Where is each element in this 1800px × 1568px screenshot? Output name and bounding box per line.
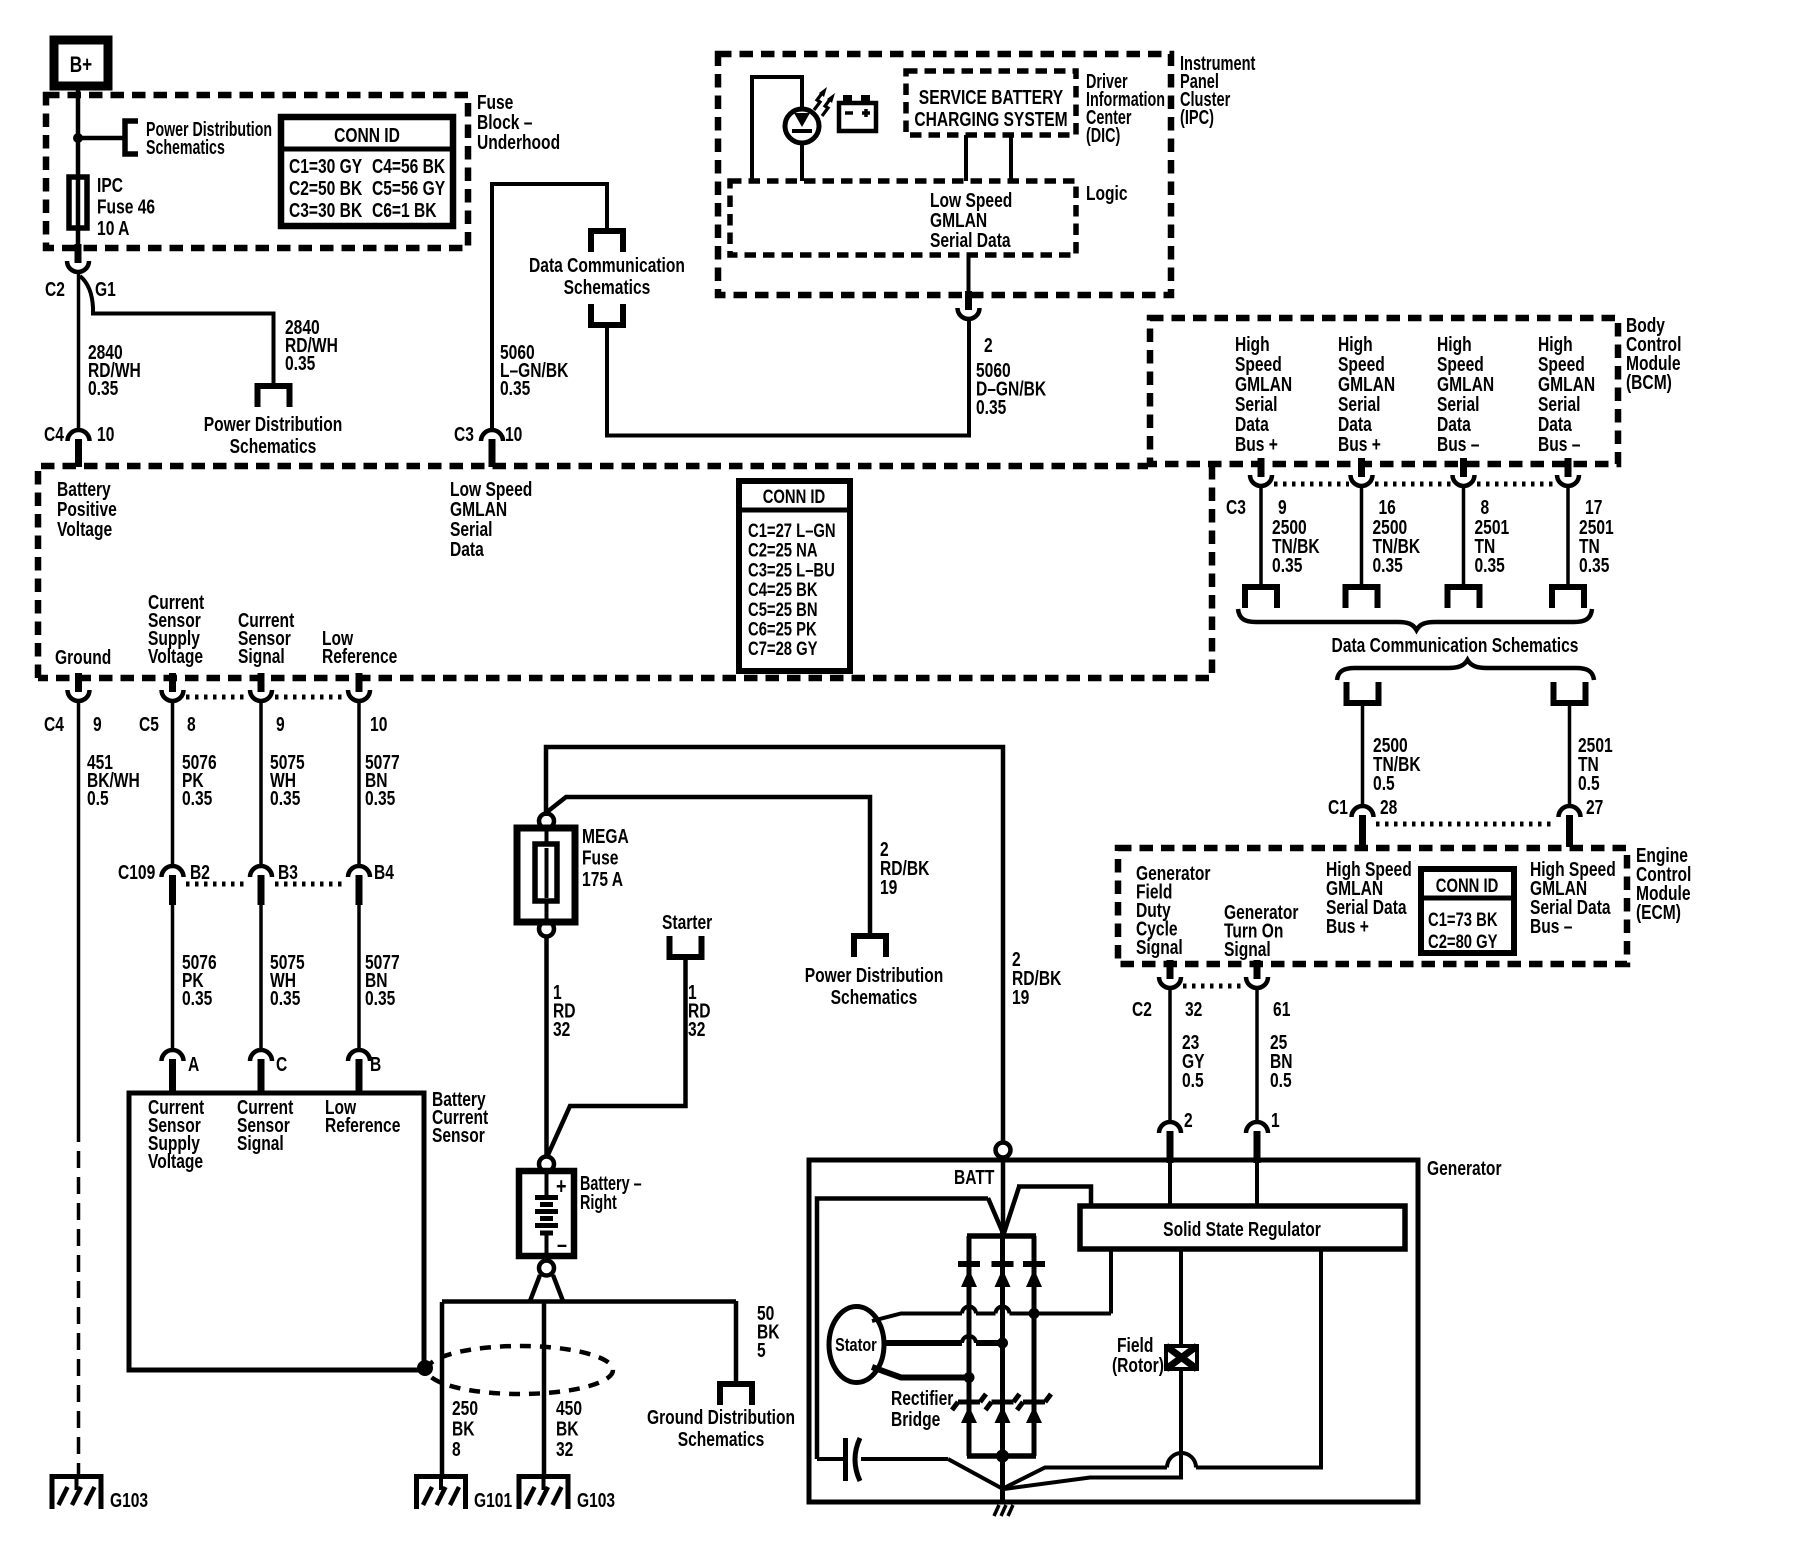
- svg-text:9: 9: [93, 713, 102, 735]
- wire 2500 TN/BK 0.5: [1361, 703, 1365, 808]
- svg-text:Data: Data: [1538, 413, 1573, 435]
- svg-text:C6=1 BK: C6=1 BK: [372, 199, 437, 221]
- svg-text:C109: C109: [118, 861, 155, 883]
- svg-text:Sensor: Sensor: [432, 1124, 485, 1146]
- svg-text:C4=25 BK: C4=25 BK: [748, 579, 818, 600]
- dotted connector link C1 row: [1376, 822, 1556, 827]
- wire 50 BK 5: [734, 1301, 739, 1384]
- wire field to ground: [1004, 1369, 1181, 1489]
- rectifier bridge frame: [967, 1233, 1036, 1239]
- label 2501 TN 0.35: [1475, 516, 1510, 576]
- connector sensor pin A: [162, 1050, 184, 1061]
- label High Speed GMLAN Serial Data Bus + col1: [1235, 333, 1292, 455]
- labels C1 28 27: [1328, 796, 1603, 818]
- svg-text:250: 250: [452, 1397, 478, 1419]
- svg-text:Low Speed: Low Speed: [930, 189, 1012, 211]
- svg-text:BK: BK: [452, 1418, 475, 1440]
- svg-text:High: High: [1338, 333, 1373, 355]
- svg-text:Speed: Speed: [1538, 353, 1585, 375]
- connector generator pin 1: [1246, 1122, 1268, 1133]
- svg-text:Serial Data: Serial Data: [930, 229, 1011, 251]
- svg-text:C7=28 GY: C7=28 GY: [748, 638, 818, 659]
- svg-text:Schematics: Schematics: [678, 1428, 765, 1450]
- svg-text:19: 19: [1012, 986, 1029, 1008]
- label 2 RD/BK 19 branch: [880, 838, 929, 898]
- wire BATT vee left: [988, 1198, 1003, 1233]
- wire regulator right to ground: [1196, 1249, 1321, 1468]
- svg-text:C1=73 BK: C1=73 BK: [1428, 909, 1498, 930]
- svg-text:17: 17: [1585, 496, 1602, 518]
- wire 2500-TN/BK from BCM: [1360, 487, 1364, 587]
- label 2840 RD/WH 0.35 branch: [285, 316, 338, 374]
- label 2500 TN/BK 0.35: [1272, 516, 1320, 576]
- junction dot bridge bottom: [996, 1450, 1009, 1463]
- label Data Communication Schematics top: [529, 254, 685, 298]
- svg-text:Signal: Signal: [1224, 938, 1271, 960]
- bridge rail middle: [1000, 1232, 1005, 1504]
- label Power Distribution Schematics lower: [805, 964, 944, 1008]
- connector C4 pin 9 ground wire: [75, 673, 82, 692]
- svg-text:Fuse 46: Fuse 46: [97, 196, 155, 218]
- table CONN ID fuse block underhood: [281, 117, 453, 226]
- label 1 RD 32 starter: [688, 981, 711, 1040]
- svg-text:Speed: Speed: [1235, 353, 1282, 375]
- wire data comm top run: [492, 184, 607, 231]
- svg-text:Bus +: Bus +: [1338, 433, 1381, 455]
- off-page bracket Power Distribution Schematics lower: [854, 936, 886, 957]
- ground symbol G101: [439, 1474, 443, 1490]
- svg-text:CHARGING SYSTEM: CHARGING SYSTEM: [914, 108, 1067, 130]
- label Battery Current Sensor: [432, 1088, 488, 1146]
- connector pin 61 generator turn on: [1254, 960, 1261, 979]
- svg-text:Data: Data: [450, 538, 485, 560]
- off-page bracket to ECM bus plus: [1347, 682, 1379, 703]
- wire BATT vee right to regulator: [1004, 1187, 1019, 1233]
- wires DIC to logic: [964, 135, 968, 181]
- wire left internal rail: [817, 1199, 988, 1460]
- label Current Sensor Signal: [238, 609, 294, 667]
- label Low Speed GMLAN Serial Data harness: [450, 478, 532, 560]
- junction circle battery top: [539, 1157, 554, 1172]
- svg-text:C1=30 GY: C1=30 GY: [289, 155, 362, 177]
- label Rectifier Bridge: [891, 1387, 953, 1430]
- avalanche diode bottom middle: [992, 1400, 1014, 1405]
- svg-text:Schematics: Schematics: [146, 136, 225, 159]
- diode top left: [958, 1261, 980, 1267]
- component box Generator: [809, 1160, 1418, 1502]
- svg-text:8: 8: [187, 713, 196, 735]
- table CONN ID ECM: [1421, 869, 1514, 953]
- svg-text:0.35: 0.35: [270, 987, 300, 1009]
- wire branch to power distribution: [547, 797, 870, 936]
- svg-text:Voltage: Voltage: [148, 1150, 203, 1172]
- label MEGA Fuse 175 A: [582, 825, 629, 890]
- label Current Sensor Supply Voltage: [148, 591, 204, 667]
- svg-text:Underhood: Underhood: [477, 131, 560, 153]
- svg-text:32: 32: [1185, 998, 1202, 1020]
- svg-text:C2=25 NA: C2=25 NA: [748, 540, 818, 561]
- wire G1 branch to power distribution: [80, 276, 274, 386]
- svg-text:Bus –: Bus –: [1538, 433, 1580, 455]
- svg-text:C4: C4: [44, 713, 64, 735]
- label 2501 TN 0.35: [1579, 516, 1614, 576]
- label Current Sensor Signal inside: [237, 1096, 293, 1154]
- wire from data comm to IPC pin 2: [607, 320, 969, 436]
- label 23 GY 0.5: [1182, 1031, 1205, 1091]
- svg-text:Logic: Logic: [1086, 182, 1128, 204]
- svg-text:10: 10: [505, 423, 522, 445]
- svg-text:GMLAN: GMLAN: [1538, 373, 1595, 395]
- svg-text:0.5: 0.5: [1270, 1069, 1292, 1091]
- svg-text:61: 61: [1273, 998, 1290, 1020]
- off-page bracket BCM wire 1: [1245, 587, 1277, 608]
- svg-text:Voltage: Voltage: [57, 518, 112, 540]
- svg-text:B2: B2: [190, 861, 210, 883]
- label 5076 PK 0.35 lower: [182, 951, 217, 1009]
- svg-text:28: 28: [1380, 796, 1397, 818]
- svg-text:G1: G1: [95, 278, 116, 300]
- svg-text:8: 8: [452, 1438, 461, 1460]
- fuse MEGA Fuse 175A: [517, 828, 575, 922]
- junction circle battery bottom: [539, 1261, 554, 1276]
- svg-text:0.35: 0.35: [285, 352, 315, 374]
- label High Speed GMLAN Serial Data Bus + col2: [1338, 333, 1395, 455]
- dotted connector link ECM row: [1183, 984, 1244, 989]
- svg-text:10: 10: [97, 423, 114, 445]
- svg-text:B4: B4: [374, 861, 394, 883]
- connector generator pin 2: [1159, 1122, 1181, 1133]
- svg-text:Low Speed: Low Speed: [450, 478, 532, 500]
- svg-text:B: B: [370, 1053, 381, 1075]
- diode top right: [1023, 1261, 1045, 1267]
- connector C5 pin 8: [169, 673, 176, 692]
- svg-text:(Rotor): (Rotor): [1112, 1354, 1164, 1376]
- svg-text:Reference: Reference: [322, 645, 397, 667]
- svg-text:0.35: 0.35: [182, 987, 212, 1009]
- svg-text:32: 32: [553, 1018, 570, 1040]
- svg-text:Data: Data: [1437, 413, 1472, 435]
- svg-text:G103: G103: [577, 1489, 615, 1511]
- svg-text:Data Communication Schematics: Data Communication Schematics: [1332, 634, 1579, 656]
- svg-text:Speed: Speed: [1338, 353, 1385, 375]
- svg-text:0.35: 0.35: [182, 787, 212, 809]
- svg-text:Power Distribution: Power Distribution: [204, 413, 343, 435]
- svg-text:G101: G101: [474, 1489, 512, 1511]
- wire 1 RD 32 fuse to battery: [544, 936, 549, 1156]
- off-page bracket BCM wire 2: [1346, 587, 1378, 608]
- label Low Reference: [322, 627, 397, 667]
- svg-text:Data: Data: [1338, 413, 1373, 435]
- wire battery positive feed top: [546, 747, 1003, 1144]
- wire 2501-TN from BCM: [1566, 487, 1570, 587]
- wire stator phase B: [884, 1340, 962, 1346]
- capacitor noise suppressor: [817, 1438, 948, 1481]
- svg-text:C: C: [276, 1053, 287, 1075]
- indicator lamp wiring loop: [752, 77, 802, 181]
- svg-text:C4=56 BK: C4=56 BK: [372, 155, 445, 177]
- junction circle MEGA fuse top: [539, 814, 554, 829]
- label Fuse Block - Underhood: [477, 91, 560, 153]
- off-page bracket Power Distribution Schematics branch: [258, 386, 290, 407]
- wire 451 BK/WH upper: [77, 702, 81, 1125]
- wire 451 BK/WH dashed to G103: [77, 1125, 81, 1474]
- label Low Speed GMLAN Serial Data logic: [930, 189, 1012, 251]
- wire stator phase A to regulator: [872, 1314, 962, 1322]
- wire ground bus horizontal: [442, 1299, 736, 1304]
- svg-text:GMLAN: GMLAN: [1338, 373, 1395, 395]
- svg-text:10 A: 10 A: [97, 217, 129, 239]
- brace data communication lower: [1337, 660, 1594, 680]
- svg-text:(IPC): (IPC): [1180, 106, 1214, 129]
- svg-text:Bridge: Bridge: [891, 1408, 940, 1430]
- off-page bracket Starter: [670, 936, 702, 957]
- wire 23 GY 0.5: [1168, 989, 1172, 1124]
- svg-text:GMLAN: GMLAN: [1437, 373, 1494, 395]
- svg-text:Starter: Starter: [662, 911, 712, 933]
- off-page bracket to ECM bus minus: [1554, 682, 1586, 703]
- svg-text:9: 9: [1278, 496, 1287, 518]
- battery telltale icon: [839, 95, 876, 131]
- svg-text:27: 27: [1586, 796, 1603, 818]
- svg-text:GMLAN: GMLAN: [930, 209, 987, 231]
- off-page bracket Ground Distribution Schematics: [720, 1384, 752, 1405]
- junction dot phase B middle rail: [997, 1338, 1008, 1349]
- module box Engine Control Module ECM: [1118, 848, 1627, 964]
- label 1 RD 32 left: [553, 981, 576, 1040]
- connector C109 B4: [348, 866, 370, 877]
- svg-text:G103: G103: [110, 1489, 148, 1511]
- svg-text:Generator: Generator: [1427, 1157, 1502, 1179]
- off-page reference bracket Power Distribution Schematics: [125, 121, 138, 154]
- ground symbol G103 right: [542, 1474, 546, 1490]
- module box Body Control Module BCM: [1150, 318, 1618, 464]
- svg-text:Schematics: Schematics: [831, 986, 918, 1008]
- connector C1 pin 27: [1559, 806, 1581, 817]
- off-page bracket data communication out: [591, 304, 623, 325]
- wire 25 BN 0.5: [1255, 989, 1259, 1124]
- label Generator Field Duty Cycle Signal: [1136, 862, 1211, 958]
- svg-text:CONN ID: CONN ID: [1436, 875, 1498, 896]
- svg-text:Rectifier: Rectifier: [891, 1387, 953, 1409]
- bridge rail right: [1032, 1236, 1037, 1456]
- module box Instrument Panel Cluster IPC: [718, 54, 1171, 295]
- label Engine Control Module ECM: [1636, 844, 1691, 923]
- label IPC Fuse 46 10 A: [97, 174, 155, 239]
- label High Speed GMLAN Serial Data Bus – col3: [1437, 333, 1494, 455]
- svg-text:1: 1: [1271, 1109, 1280, 1131]
- svg-text:High: High: [1437, 333, 1472, 355]
- junction dot phase A right rail: [1029, 1308, 1040, 1319]
- svg-text:0.35: 0.35: [1372, 554, 1402, 576]
- connector pin 9 signal: [258, 673, 265, 692]
- LED light arrows: [814, 87, 835, 116]
- svg-text:2: 2: [1184, 1109, 1193, 1131]
- avalanche diode bottom left: [958, 1400, 980, 1405]
- svg-text:GMLAN: GMLAN: [450, 498, 507, 520]
- svg-text:BK: BK: [556, 1418, 579, 1440]
- svg-text:Schematics: Schematics: [564, 276, 651, 298]
- wire B+ to fuse: [76, 84, 81, 248]
- labels C2 32 61: [1132, 998, 1290, 1020]
- label Driver Information Center DIC: [1086, 70, 1165, 147]
- wire stator phase C: [872, 1367, 969, 1378]
- label 5076 PK 0.35 upper: [182, 751, 217, 809]
- wire 1 RD 32 starter: [547, 957, 686, 1157]
- svg-text:B+: B+: [70, 53, 92, 78]
- twisted pair dashed ellipse: [427, 1346, 613, 1394]
- svg-text:32: 32: [688, 1018, 705, 1040]
- svg-text:Right: Right: [580, 1191, 617, 1214]
- label Current Sensor Supply Voltage inside: [148, 1096, 204, 1172]
- wires ECM pins into regulator: [1168, 1150, 1172, 1208]
- label Low Reference inside: [325, 1096, 400, 1136]
- node B+ battery positive terminal: [54, 40, 108, 86]
- svg-text:0.35: 0.35: [1579, 554, 1609, 576]
- svg-text:C3: C3: [454, 423, 474, 445]
- svg-text:175 A: 175 A: [582, 868, 623, 890]
- wire 2500-TN/BK from BCM: [1259, 487, 1263, 587]
- svg-text:Bus –: Bus –: [1437, 433, 1479, 455]
- svg-text:Serial: Serial: [1437, 393, 1479, 415]
- svg-text:CONN ID: CONN ID: [763, 486, 825, 507]
- connector C3 pin 8: [1460, 458, 1467, 477]
- wire logic to IPC pin 2: [967, 255, 971, 297]
- svg-text:High: High: [1235, 333, 1270, 355]
- svg-text:5: 5: [757, 1339, 766, 1361]
- labels generator pins 2 1: [1184, 1109, 1280, 1131]
- label Battery Positive Voltage: [57, 478, 117, 540]
- svg-text:Speed: Speed: [1437, 353, 1484, 375]
- svg-text:0.5: 0.5: [87, 787, 109, 809]
- svg-text:0.5: 0.5: [1578, 772, 1600, 794]
- label 5075 WH 0.35 upper: [270, 751, 305, 809]
- svg-text:Signal: Signal: [238, 645, 285, 667]
- connector C109 B3: [250, 866, 272, 877]
- label 2500 TN/BK 0.35: [1372, 516, 1420, 576]
- svg-text:C5: C5: [139, 713, 159, 735]
- connector pin 10 low reference: [356, 673, 363, 692]
- wire 5075 WH lower: [259, 905, 263, 1050]
- svg-text:0.35: 0.35: [365, 787, 395, 809]
- svg-text:0.5: 0.5: [1182, 1069, 1204, 1091]
- component box Battery - Right: [519, 1171, 574, 1258]
- svg-text:C6=25 PK: C6=25 PK: [748, 619, 817, 640]
- wire 5075 WH upper: [259, 702, 263, 868]
- label 5077 BN 0.35 lower: [365, 951, 400, 1009]
- fuse IPC Fuse 46 10A: [69, 177, 87, 228]
- svg-text:SERVICE BATTERY: SERVICE BATTERY: [919, 86, 1063, 108]
- component box Battery Current Sensor: [129, 1093, 424, 1370]
- connector C2 pin 32 generator field duty cycle: [1167, 960, 1174, 979]
- svg-text:Power Distribution: Power Distribution: [805, 964, 944, 986]
- wire BATT into bridge: [1001, 1157, 1006, 1232]
- svg-text:MEGA: MEGA: [582, 825, 629, 847]
- dotted connector link C5 row: [186, 695, 249, 700]
- label Power Distribution Schematics: [146, 118, 272, 159]
- svg-text:Data Communication: Data Communication: [529, 254, 685, 276]
- svg-text:Bus +: Bus +: [1326, 915, 1369, 937]
- wire 5060 L-GN/BK vertical: [490, 182, 494, 430]
- svg-text:(ECM): (ECM): [1636, 901, 1681, 923]
- label 450 BK 32: [556, 1397, 582, 1460]
- svg-text:BATT: BATT: [954, 1166, 994, 1188]
- svg-text:C5=25 BN: C5=25 BN: [748, 599, 818, 620]
- wire 2501-TN from BCM: [1462, 487, 1466, 587]
- label 5060 D-GN/BK 0.35: [976, 359, 1046, 418]
- field rotor winding symbol: [1166, 1346, 1197, 1369]
- labels pins A C B: [188, 1053, 381, 1075]
- svg-text:0.35: 0.35: [976, 396, 1006, 418]
- module box Fuse Block - Underhood: [46, 95, 468, 248]
- wire 5076 PK lower: [171, 905, 175, 1050]
- svg-text:IPC: IPC: [97, 174, 123, 196]
- label 5075 WH 0.35 lower: [270, 951, 305, 1009]
- connector C1 pin 28: [1352, 806, 1374, 817]
- junction dot phase C left rail: [964, 1372, 975, 1383]
- svg-text:19: 19: [880, 876, 897, 898]
- svg-text:Fuse: Fuse: [477, 91, 513, 113]
- svg-text:0.35: 0.35: [500, 377, 530, 399]
- avalanche diode bottom right: [1023, 1400, 1045, 1405]
- label 451 BK/WH 0.5: [87, 751, 140, 809]
- junction circle BATT terminal: [996, 1143, 1011, 1158]
- svg-text:0.35: 0.35: [88, 377, 118, 399]
- box Logic: [730, 181, 1076, 255]
- box SERVICE BATTERY CHARGING SYSTEM message: [906, 71, 1076, 135]
- svg-text:10: 10: [370, 713, 387, 735]
- wire capacitor to ground point: [948, 1459, 1003, 1489]
- label Body Control Module BCM: [1626, 314, 1681, 393]
- junction dot on B+ feed: [73, 133, 83, 143]
- svg-text:C1: C1: [1328, 796, 1348, 818]
- svg-text:Reference: Reference: [325, 1114, 400, 1136]
- svg-text:32: 32: [556, 1438, 573, 1460]
- label High Speed GMLAN Serial Data Bus minus ECM: [1530, 858, 1616, 937]
- label 2 RD/BK 19 right: [1012, 948, 1061, 1008]
- charge indicator LED: [785, 109, 819, 143]
- junction circle MEGA fuse bottom: [539, 922, 554, 937]
- svg-text:0.5: 0.5: [1373, 772, 1395, 794]
- label 2500 TN/BK 0.5: [1373, 734, 1421, 794]
- svg-text:C1=27 L–GN: C1=27 L–GN: [748, 520, 836, 541]
- brace data communication upper: [1238, 609, 1592, 630]
- dotted connector link C109 row: [186, 882, 249, 887]
- svg-text:(DIC): (DIC): [1086, 124, 1120, 147]
- connector C2 at fuse block output: [75, 244, 82, 263]
- connector sensor pin C: [250, 1050, 272, 1061]
- svg-text:C2=50 BK: C2=50 BK: [289, 177, 362, 199]
- label Instrument Panel Cluster IPC: [1180, 52, 1256, 129]
- label 5077 BN 0.35 upper: [365, 751, 400, 809]
- svg-text:A: A: [188, 1053, 199, 1075]
- svg-text:C2: C2: [45, 278, 65, 300]
- label High Speed GMLAN Serial Data Bus plus ECM: [1326, 858, 1412, 937]
- svg-text:Ground Distribution: Ground Distribution: [647, 1406, 795, 1428]
- label High Speed GMLAN Serial Data Bus – col4: [1538, 333, 1595, 455]
- label Ground Distribution Schematics: [647, 1406, 795, 1450]
- off-page bracket BCM wire 3: [1448, 587, 1480, 608]
- svg-text:0.35: 0.35: [365, 987, 395, 1009]
- svg-text:16: 16: [1378, 496, 1395, 518]
- svg-text:High: High: [1538, 333, 1573, 355]
- svg-text:Serial: Serial: [1235, 393, 1277, 415]
- stator winding circle: [829, 1307, 884, 1383]
- wire 2840 RD/WH down to C4: [77, 272, 81, 430]
- diode top middle: [992, 1261, 1014, 1267]
- svg-text:CONN ID: CONN ID: [334, 124, 400, 146]
- svg-text:Serial: Serial: [450, 518, 492, 540]
- svg-text:Bus +: Bus +: [1235, 433, 1278, 455]
